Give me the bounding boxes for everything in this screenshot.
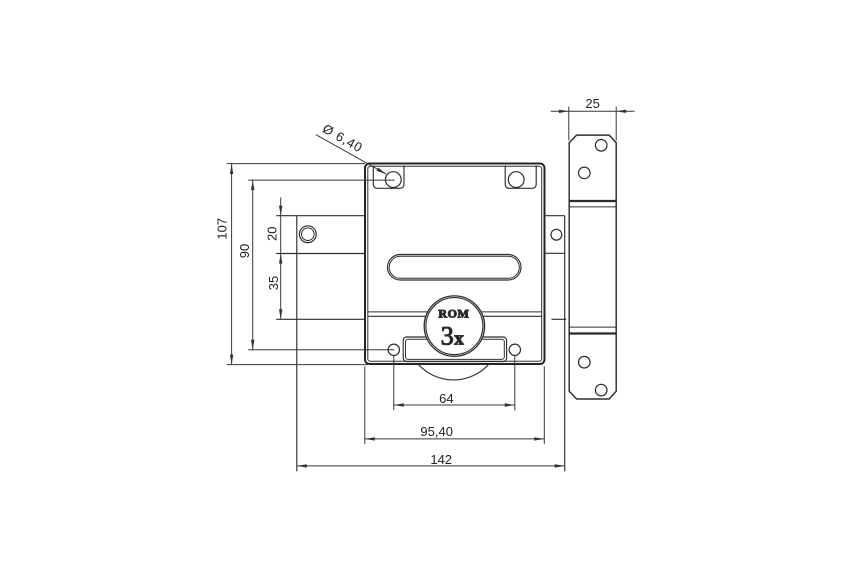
dim 107 bottom extension [227,364,368,366]
right case hole [551,229,562,240]
leader line for Ø6,40 [316,135,387,175]
strike plate hole top-1 [595,140,607,152]
svg-text:95,40: 95,40 [420,424,453,439]
lock face plate outer outline [365,164,545,365]
arrowhead 20/35 shared (pointing up) [279,254,282,264]
arrowhead 25 right [616,110,626,113]
svg-text:ROM: ROM [438,306,469,320]
dim 64 extension right [514,356,516,410]
dim 64 line [394,404,515,406]
strike plate bottom bend thick line [569,332,616,334]
top-left screw pocket [373,166,404,189]
lock face plate inner outline [368,166,542,361]
dim 90 bottom extension [248,349,394,351]
dim 20-35 line [280,198,282,320]
arrowhead leader Ø6,40 [376,168,387,176]
screw hole top-left Ø6,40 [385,172,401,188]
left case bottom edge + 35 extension [276,318,365,320]
strike plate top bend thick line [569,200,616,202]
dim 95,40 line [365,438,545,440]
svg-text:64: 64 [439,391,453,406]
key slot inner [389,256,519,278]
left case hole outer ring [299,226,316,243]
top-right screw pocket [505,166,536,189]
cylinder collar arc below plate [418,364,489,380]
bottom tab outer [403,337,506,362]
strike plate hole top-2 [579,167,591,179]
arrowhead 95,40 left [365,437,375,440]
right case / bolt top edge [545,215,565,217]
dim 142 line [297,465,565,467]
dim 107 line [231,164,233,365]
strike plate top bend thin line [569,206,616,208]
left case hole inner ring [302,228,315,241]
dim 95,40 extension right [543,366,545,444]
strike plate outline [569,135,616,399]
svg-text:Ø 6,40: Ø 6,40 [320,121,366,156]
arrowhead 64 left [394,403,404,406]
left case internal step line + extension [276,253,365,255]
dim 25 extension left [568,107,570,141]
key slot outer [388,255,522,281]
ROM logo ring inner [426,298,483,355]
right case bottom edge [552,318,567,320]
strike plate bottom bend thin line [569,326,616,328]
strike plate hole bottom-1 [595,384,607,396]
inner bottom band line lower [368,315,542,317]
dim 90 top extension [248,179,394,181]
arrowhead 142 left [297,464,307,467]
dim 64 extension left [393,356,395,410]
arrowhead 95,40 right [534,437,544,440]
arrowhead 20 top (pointing down) [279,206,282,216]
ROM logo ring outer [424,296,484,356]
screw hole top-right [508,172,524,188]
left case left edge + 142 extension line [296,216,298,472]
svg-text:107: 107 [215,218,230,240]
strike plate hole bottom-2 [579,356,591,368]
inner bottom band line upper [368,311,542,313]
arrowhead 90 bottom [251,340,254,350]
dim 25 extension right [615,107,617,141]
svg-text:35: 35 [266,276,281,290]
screw hole bottom-left [388,344,399,355]
dim 95,40 extension left [364,366,366,444]
dim 25 line [551,110,635,112]
bottom tab inner [406,339,505,359]
arrowhead 107 bottom [230,355,233,365]
right case internal step line [545,252,565,254]
arrowhead 107 top [230,164,233,174]
arrowhead 25 left [559,110,569,113]
svg-text:25: 25 [585,96,599,111]
svg-text:142: 142 [430,452,452,467]
screw hole bottom-right [509,344,520,355]
left case rectangle top edge + 20 extension [276,215,365,217]
dim 107 top extension [227,163,365,165]
svg-text:20: 20 [265,227,280,241]
right case right edge + 142 extension line [564,216,566,472]
arrowhead 64 right [505,403,515,406]
arrowhead 35 bottom (pointing down) [279,309,282,319]
svg-text:90: 90 [237,244,252,258]
dim 90 line [252,180,254,350]
arrowhead 142 right [555,464,565,467]
arrowhead 90 top [251,180,254,190]
